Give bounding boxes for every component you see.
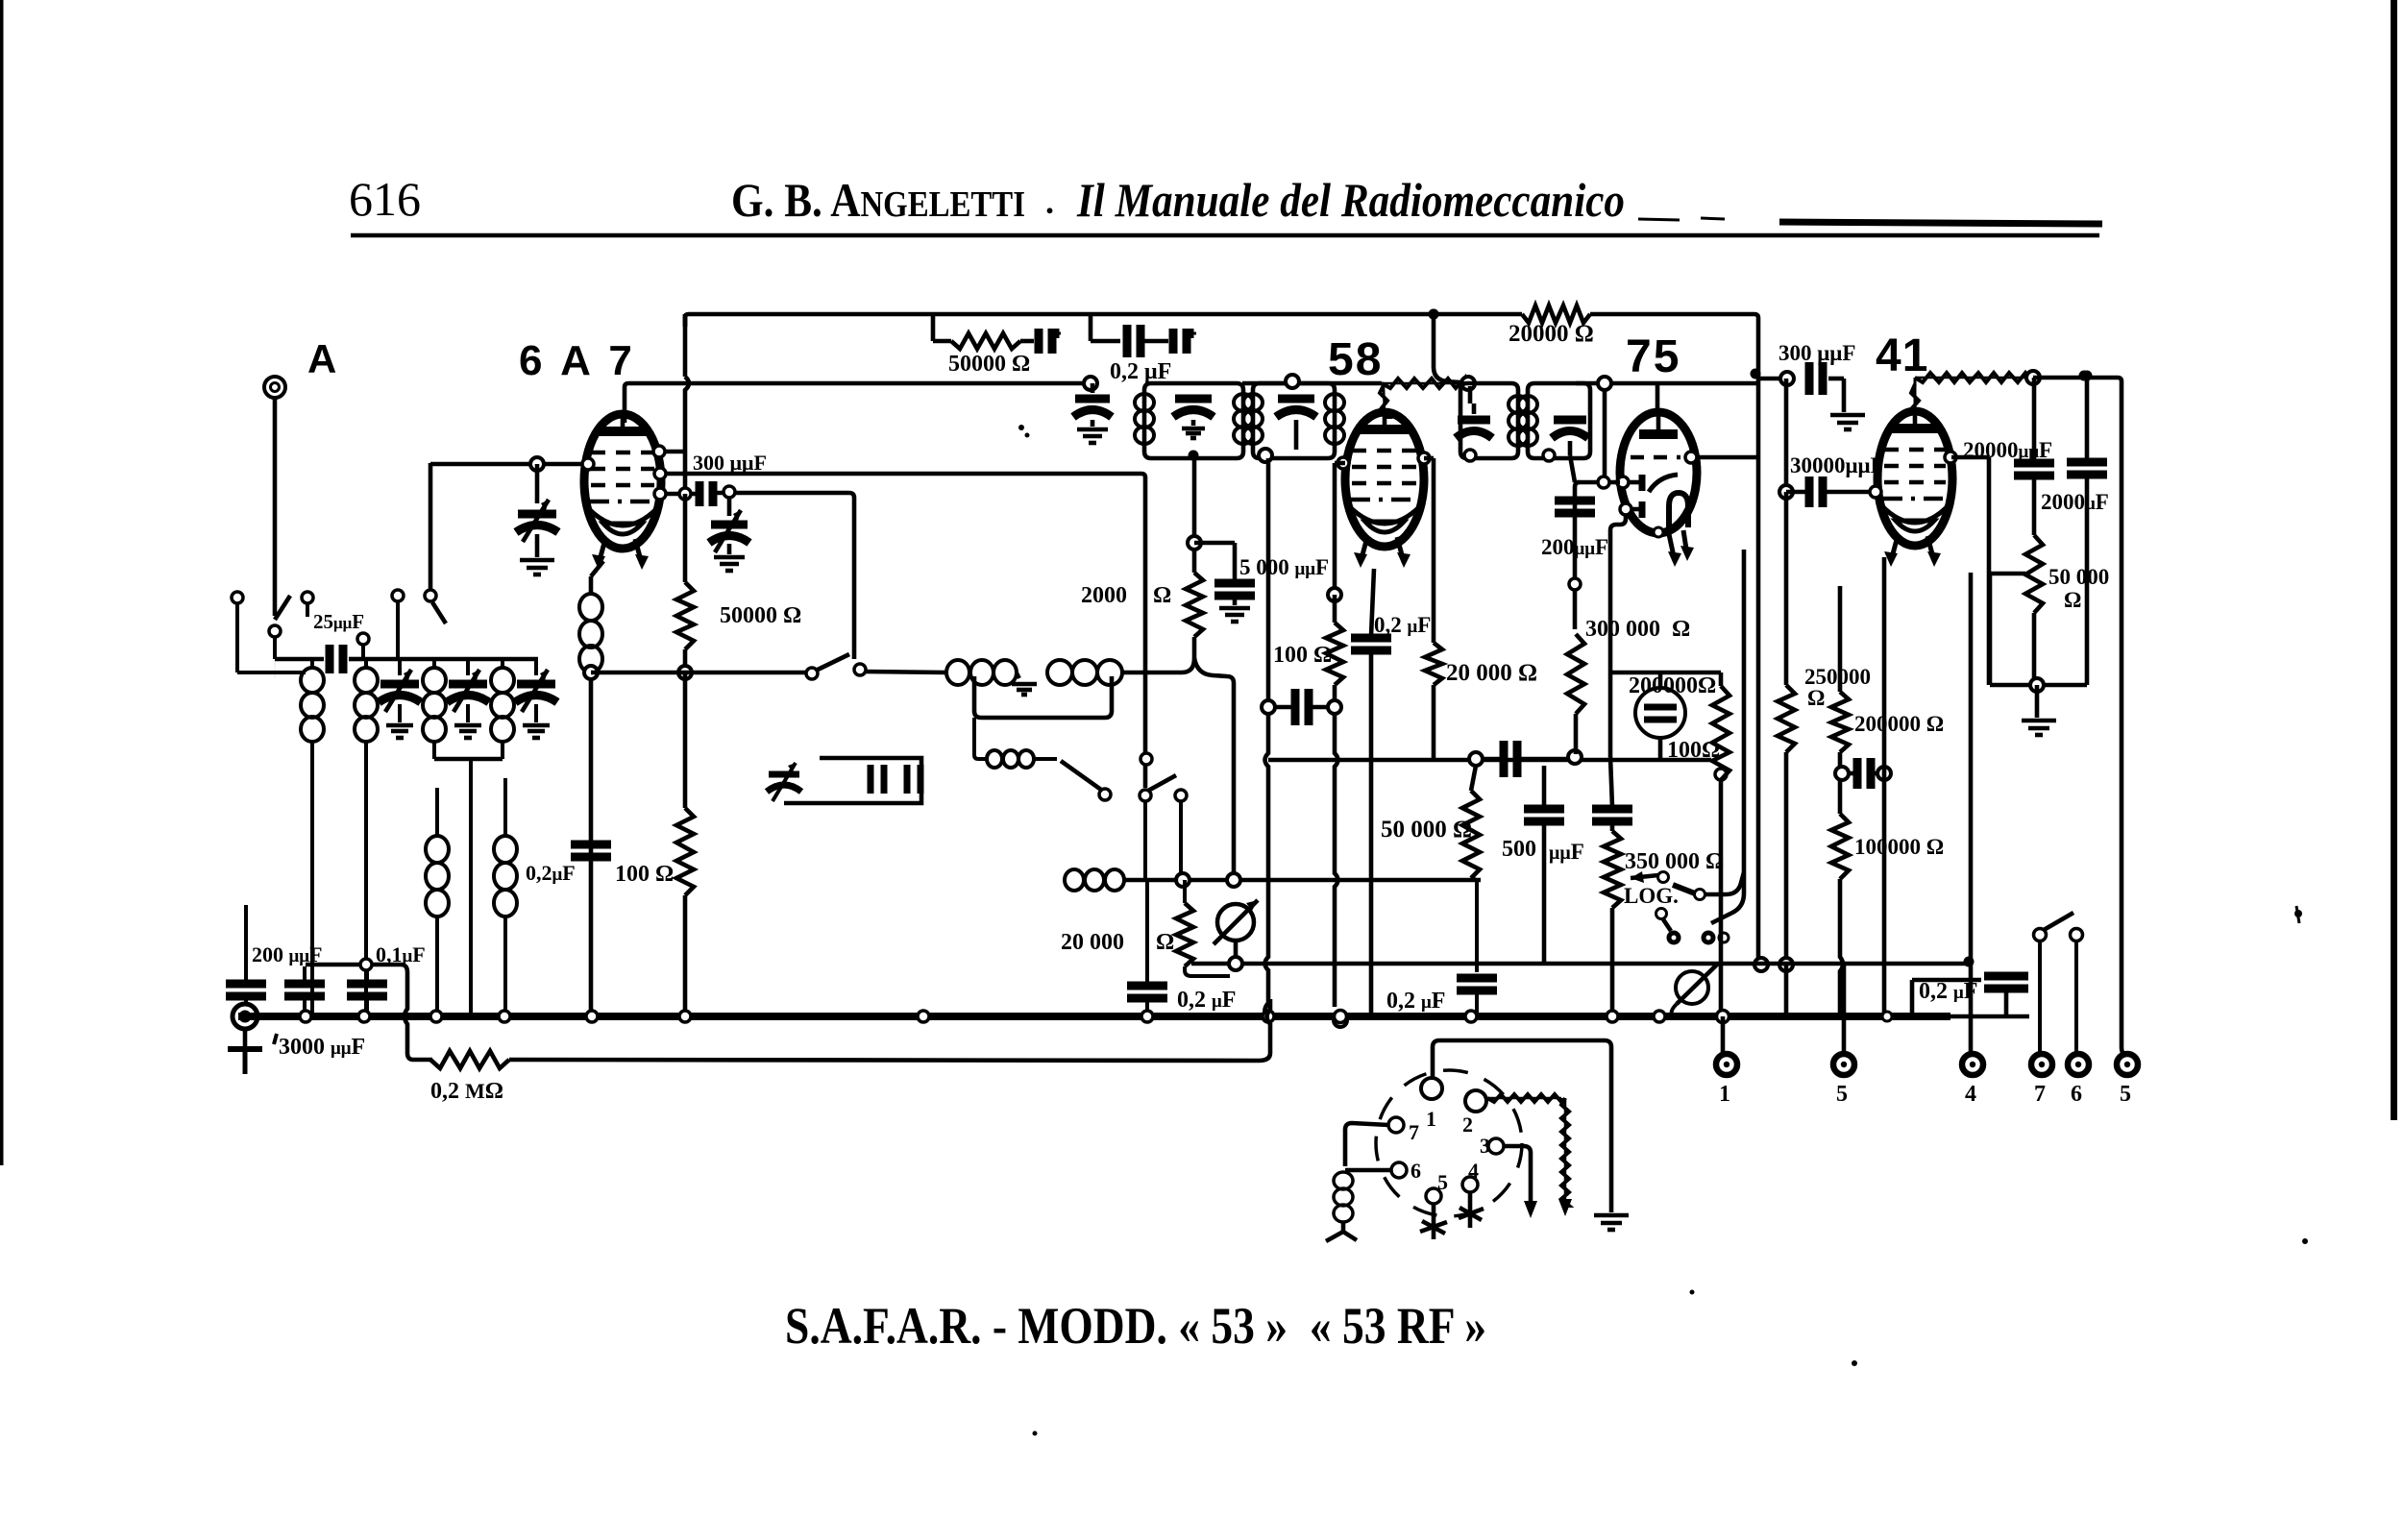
- svg-text:S.A.F.A.R. - MODD. « 53 » « 5: S.A.F.A.R. - MODD. « 53 » « 53 RF »: [785, 1297, 1486, 1355]
- svg-text:5 000 μμF: 5 000 μμF: [1239, 555, 1329, 579]
- svg-text:20000μμF: 20000μμF: [1963, 438, 2052, 462]
- svg-text:50 000: 50 000: [2048, 565, 2109, 589]
- svg-text:200000 Ω: 200000 Ω: [1854, 712, 1944, 736]
- svg-text:0,2 MΩ: 0,2 MΩ: [430, 1079, 503, 1104]
- svg-text:300 000: 300 000: [1585, 617, 1660, 642]
- svg-text:300 μμF: 300 μμF: [1778, 341, 1855, 365]
- svg-text:0,2 μF: 0,2 μF: [1386, 989, 1445, 1014]
- svg-text:350 000 Ω: 350 000 Ω: [1625, 849, 1724, 874]
- svg-text:1: 1: [1719, 1082, 1730, 1107]
- svg-text:200μμF: 200μμF: [1541, 535, 1608, 559]
- svg-text:6: 6: [2071, 1082, 2082, 1107]
- svg-text:41: 41: [1876, 330, 1928, 381]
- svg-text:Ω: Ω: [1153, 583, 1171, 608]
- svg-text:5: 5: [1437, 1170, 1448, 1194]
- svg-text:20 000: 20 000: [1061, 930, 1124, 955]
- svg-text:75: 75: [1626, 331, 1680, 382]
- svg-text:30000μμF: 30000μμF: [1790, 453, 1884, 477]
- svg-text:4: 4: [1468, 1159, 1479, 1183]
- svg-text:μμF: μμF: [1549, 840, 1584, 864]
- svg-text:Ω: Ω: [2064, 588, 2081, 612]
- svg-text:2: 2: [1462, 1112, 1473, 1137]
- svg-text:0,2 μF: 0,2 μF: [1919, 979, 1977, 1004]
- svg-text:50000 Ω: 50000 Ω: [948, 352, 1030, 377]
- svg-text:300 μμF: 300 μμF: [693, 451, 767, 475]
- svg-text:2000: 2000: [1081, 583, 1127, 608]
- svg-text:0,2 μF: 0,2 μF: [1110, 359, 1171, 384]
- svg-text:20000 Ω: 20000 Ω: [1509, 321, 1594, 347]
- svg-text:.: .: [1045, 183, 1054, 221]
- svg-text:0,2μF: 0,2μF: [526, 861, 576, 885]
- svg-text:50000 Ω: 50000 Ω: [720, 603, 801, 628]
- svg-text:200000Ω: 200000Ω: [1629, 673, 1716, 698]
- svg-text:6 A 7: 6 A 7: [519, 337, 636, 384]
- svg-text:100 Ω: 100 Ω: [615, 862, 674, 887]
- svg-text:Ω: Ω: [1807, 686, 1825, 710]
- svg-text:3: 3: [1480, 1134, 1490, 1158]
- svg-text:20 000 Ω: 20 000 Ω: [1446, 660, 1537, 686]
- svg-text:Ω: Ω: [1672, 617, 1690, 642]
- svg-text:1: 1: [1426, 1107, 1436, 1131]
- svg-text:0,2 μF: 0,2 μF: [1177, 988, 1236, 1013]
- svg-text:50 000 Ω: 50 000 Ω: [1381, 817, 1472, 843]
- svg-text:3000 μμF: 3000 μμF: [279, 1035, 365, 1060]
- svg-text:58: 58: [1328, 334, 1383, 385]
- svg-text:100000 Ω: 100000 Ω: [1854, 835, 1944, 859]
- svg-text:4: 4: [1965, 1082, 1976, 1107]
- svg-text:2000μF: 2000μF: [2041, 490, 2109, 514]
- svg-text:LOG.: LOG.: [1624, 884, 1679, 908]
- svg-text:616: 616: [349, 172, 421, 226]
- svg-text:500: 500: [1502, 837, 1536, 862]
- svg-text:A: A: [307, 336, 336, 381]
- svg-text:5: 5: [2120, 1082, 2131, 1107]
- svg-text:6: 6: [1411, 1159, 1421, 1183]
- svg-text:5: 5: [1836, 1082, 1848, 1107]
- svg-text:Il Manuale del Radiomeccanico: Il Manuale del Radiomeccanico: [1076, 173, 1625, 227]
- svg-text:25μμF: 25μμF: [313, 610, 364, 633]
- svg-text:7: 7: [2034, 1082, 2046, 1107]
- svg-text:100 Ω: 100 Ω: [1273, 643, 1332, 668]
- svg-text:7: 7: [1409, 1120, 1419, 1144]
- svg-text:0,2 μF: 0,2 μF: [1374, 613, 1431, 637]
